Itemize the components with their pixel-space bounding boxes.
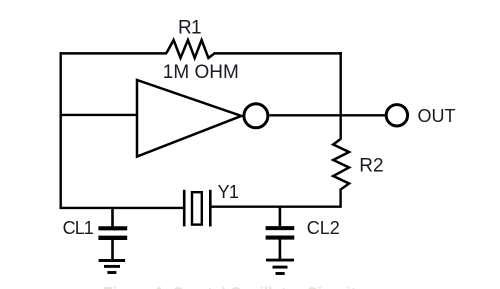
- resistor R2: [333, 139, 349, 190]
- crystal Y1 body (box): [192, 192, 202, 224]
- svg-text:Y1: Y1: [218, 182, 239, 202]
- OUT terminal circle: [386, 105, 407, 126]
- wire top rail right segment: [215, 52, 342, 55]
- svg-text:CL2: CL2: [307, 218, 340, 238]
- capacitor CL1 top plate: [98, 226, 127, 230]
- inverter output bubble: [244, 104, 268, 128]
- wire inverter output to OUT terminal (crosses right rail at output node): [269, 114, 385, 116]
- svg-text:1M OHM: 1M OHM: [163, 62, 239, 83]
- wire left rail (vertical): [60, 52, 62, 209]
- svg-text:Figure 1. Crystal Oscillator C: Figure 1. Crystal Oscillator Circuit: [103, 285, 357, 289]
- svg-text:R2: R2: [359, 155, 383, 176]
- svg-text:OUT: OUT: [418, 106, 456, 126]
- capacitor CL1 top stub: [111, 207, 114, 226]
- inverter U1 (triangle): [137, 80, 241, 157]
- crystal Y1 right plate: [209, 190, 212, 227]
- svg-text:R1: R1: [178, 18, 201, 39]
- capacitor CL1 bottom plate: [98, 236, 127, 240]
- wire R2 bottom to bottom rail (corner): [211, 189, 341, 207]
- svg-text:CL1: CL1: [63, 218, 94, 238]
- wire bottom rail left segment (left rail to crystal): [60, 207, 184, 209]
- wire right rail upper (top rail down to R2 top, through output node): [340, 52, 342, 140]
- ground symbol (CL1): [99, 261, 126, 273]
- capacitor CL2 top stub: [279, 207, 282, 226]
- resistor R1: [167, 40, 216, 58]
- capacitor CL2 bottom plate: [266, 236, 295, 240]
- capacitor CL2 top plate: [266, 226, 295, 230]
- ground symbol (CL2): [266, 260, 294, 273]
- capacitor CL1 bottom stub: [111, 240, 114, 260]
- wire inverter input (left rail to triangle): [61, 114, 137, 116]
- capacitor CL2 bottom stub: [279, 240, 282, 260]
- crystal Y1 left plate: [183, 190, 186, 227]
- wire top rail left segment: [60, 52, 168, 55]
